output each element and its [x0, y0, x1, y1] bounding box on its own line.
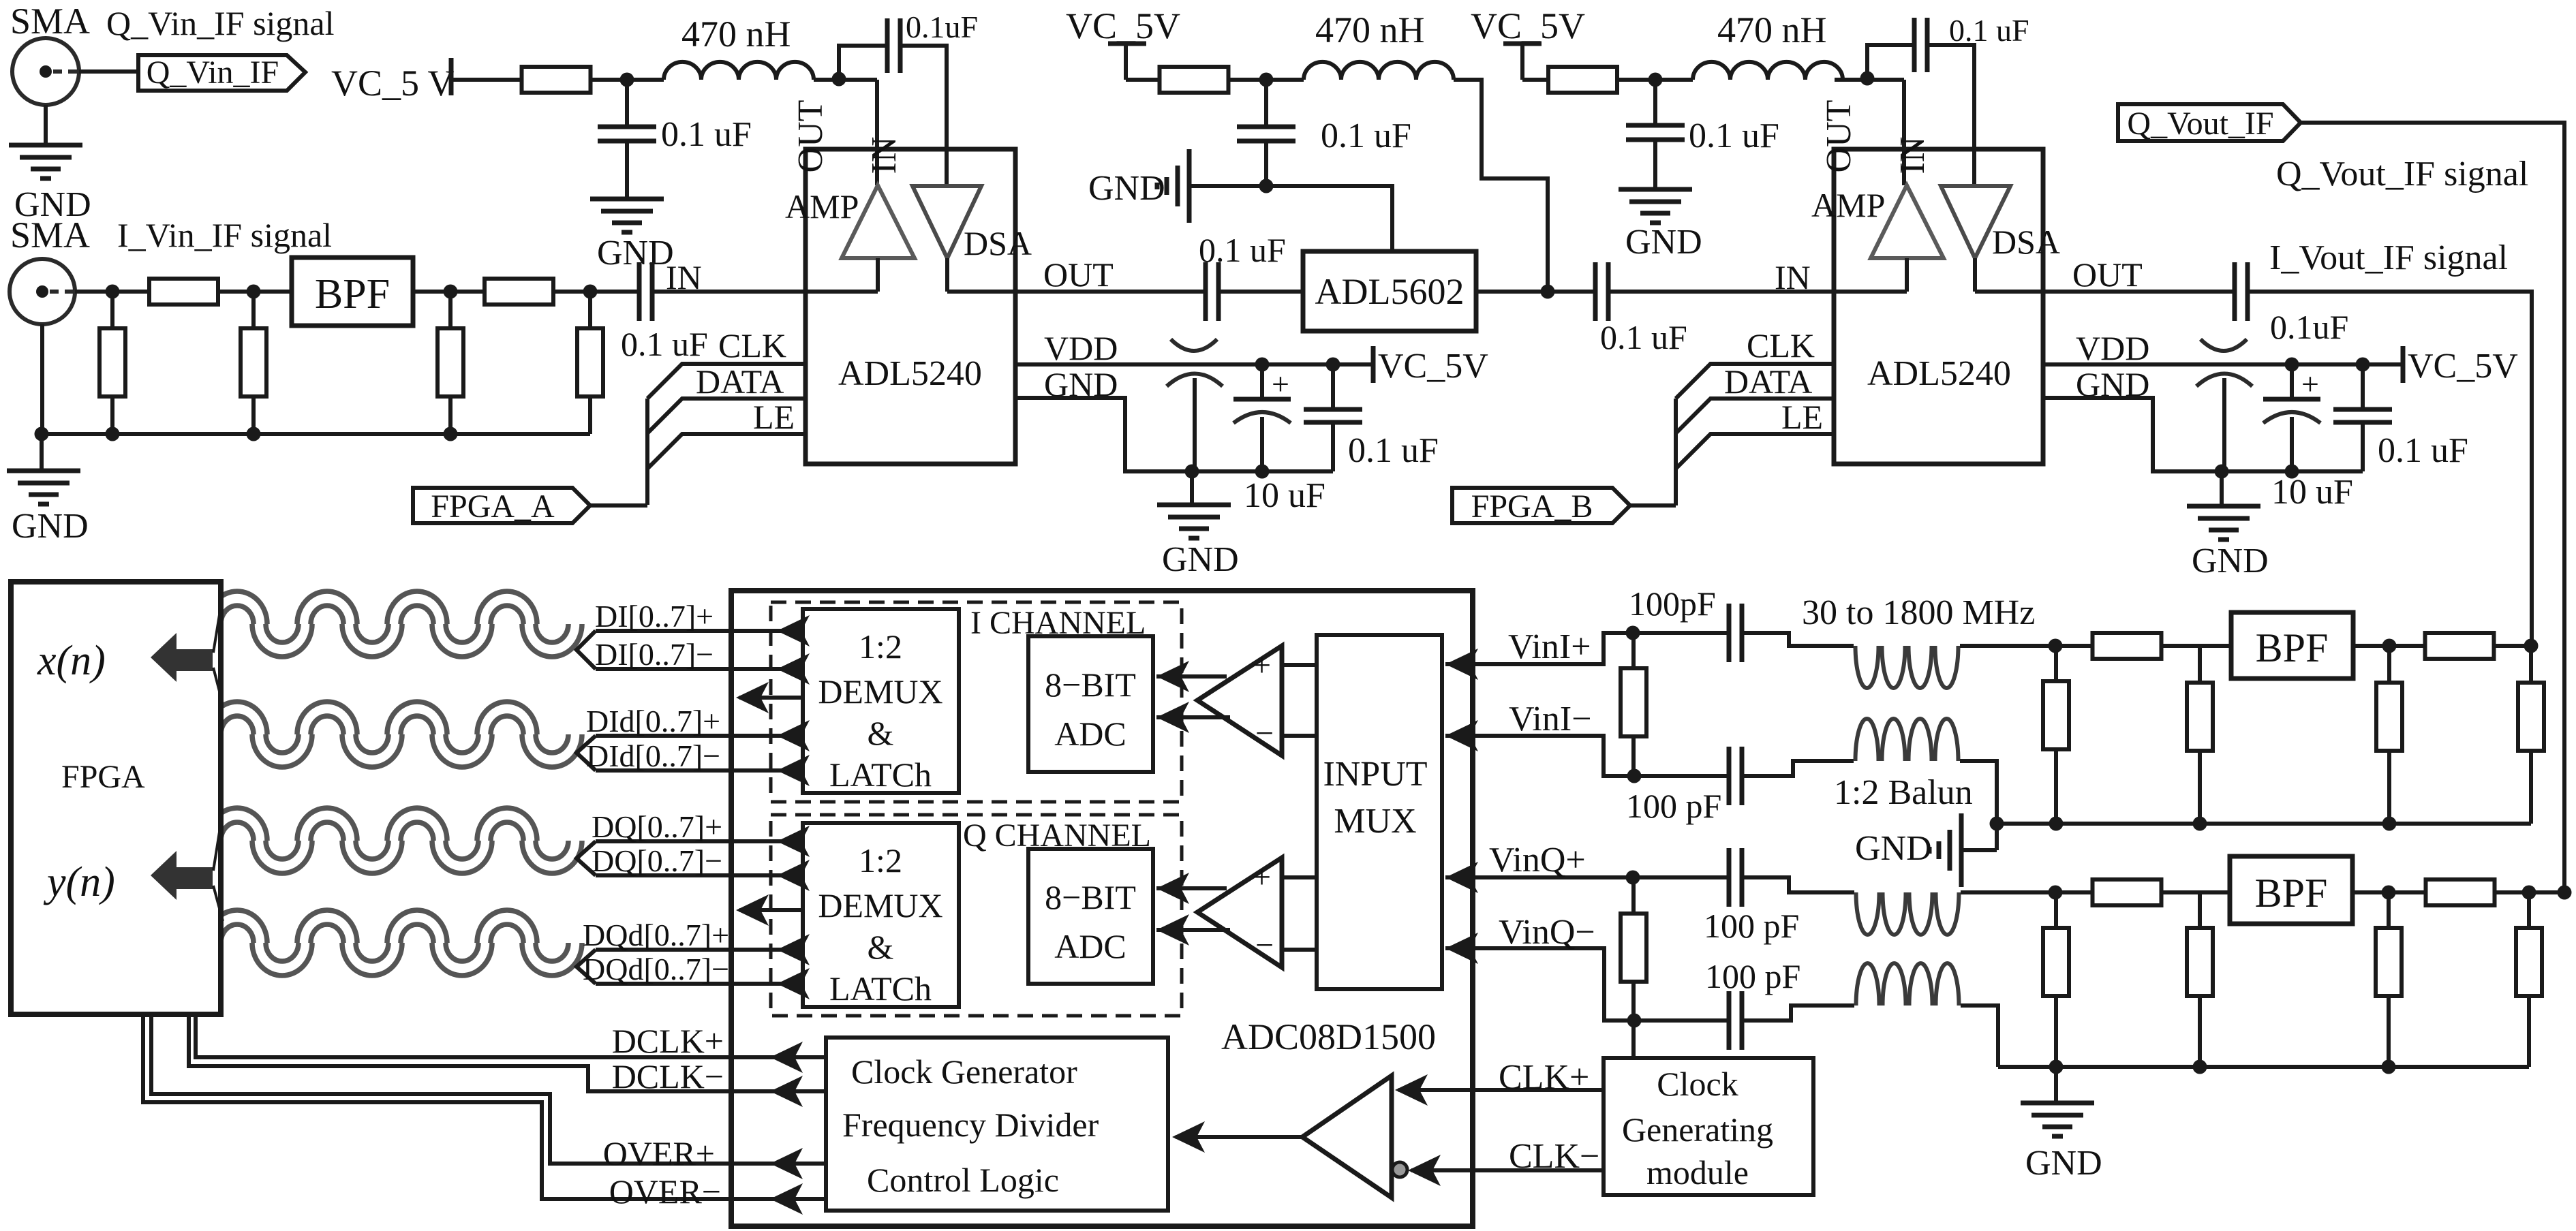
- svg-text:ADC: ADC: [1054, 927, 1126, 965]
- VC_5V tick (U3 VDD): [2401, 346, 2406, 383]
- wire node A2 up to cap C2: [839, 46, 887, 79]
- svg-text:DSA: DSA: [1992, 223, 2060, 261]
- arrow x(n): [151, 633, 213, 682]
- demux U6 (1:2 DEMUX & LATCh Q): [803, 823, 959, 1007]
- wire OVER+: [151, 1014, 826, 1164]
- node G4: [2382, 639, 2397, 653]
- node H4: [2382, 1060, 2396, 1074]
- svg-text:I_Vout_IF signal: I_Vout_IF signal: [2269, 238, 2508, 277]
- svg-text:CLK−: CLK−: [1509, 1137, 1599, 1176]
- net flag FPGA_B: [1452, 488, 1630, 523]
- svg-text:8−BIT: 8−BIT: [1045, 878, 1136, 916]
- VC_5V supply tick A: [449, 58, 454, 95]
- VC_5V tick (U1 VDD): [1371, 346, 1376, 383]
- svg-text:&: &: [868, 714, 894, 752]
- node H5: [2522, 886, 2536, 900]
- wire AMP out U1: [876, 258, 880, 292]
- node G2: [2049, 817, 2064, 831]
- wire VC to R_A: [451, 78, 522, 82]
- svg-text:IN: IN: [666, 258, 702, 296]
- svg-text:ADC: ADC: [1054, 715, 1126, 753]
- svg-text:10 uF: 10 uF: [2271, 473, 2353, 512]
- wire R1 to BPF0: [218, 290, 292, 294]
- svg-text:FPGA_B: FPGA_B: [1471, 488, 1593, 525]
- wire node C2 up to cap C8: [1867, 45, 1914, 78]
- wire A1 - to MUX: [1282, 734, 1317, 738]
- node G1: [2049, 639, 2063, 653]
- wire sideways ground to ADL5602 top: [1189, 186, 1392, 251]
- wire BPF1 to R11: [2353, 644, 2425, 648]
- svg-text:GND: GND: [1162, 540, 1239, 579]
- shunt resistor R8: [2054, 646, 2058, 681]
- svg-text:MUX: MUX: [1334, 802, 1416, 841]
- resistor R9 (series I): [2093, 633, 2162, 659]
- shunt resistor R17: [2198, 892, 2202, 928]
- svg-text:AMP: AMP: [785, 187, 859, 225]
- net DId wires: [577, 736, 596, 770]
- wire R_A to node A1: [590, 78, 664, 82]
- svg-text:DATA: DATA: [1724, 362, 1812, 401]
- svg-text:DEMUX: DEMUX: [818, 886, 942, 924]
- fan wire x(n) bottom: [213, 668, 223, 704]
- node B5: [1259, 73, 1274, 87]
- CLK pin wire U1: [647, 364, 806, 399]
- inductor L2 470 nH: [1304, 62, 1454, 80]
- node I4: [583, 285, 598, 299]
- wire C8 to DSA input U3: [1927, 45, 1974, 186]
- svg-text:1:2: 1:2: [859, 627, 902, 666]
- wire GND pin U1: [1015, 398, 1333, 471]
- shunt resistor R6: [588, 292, 592, 328]
- balun T1 bottom winding: [1856, 719, 1879, 761]
- svg-text:0.1 uF: 0.1 uF: [2378, 431, 2468, 470]
- wire VinI-: [1445, 736, 1729, 776]
- capacitor C10 (curved, VDD U1): [1171, 339, 1217, 351]
- node I3: [444, 285, 458, 299]
- ground stem (SMA Q): [44, 105, 48, 145]
- node G6: [2524, 639, 2539, 653]
- balun T2 bottom winding: [1856, 963, 1880, 1006]
- svg-text:VDD: VDD: [1044, 329, 1118, 367]
- svg-text:10 uF: 10 uF: [1244, 476, 1325, 515]
- wire VDD U3: [2043, 362, 2403, 367]
- node A1: [620, 73, 634, 87]
- svg-text:Clock: Clock: [1657, 1065, 1738, 1103]
- capacitor C15 0.1 uF: [2361, 364, 2365, 409]
- node B2: [106, 427, 120, 441]
- svg-text:470 nH: 470 nH: [1717, 10, 1827, 50]
- node H1: [2049, 886, 2063, 900]
- node H2: [2049, 1060, 2064, 1074]
- wire A1 + to MUX: [1282, 663, 1317, 667]
- svg-text:+: +: [2301, 367, 2319, 401]
- capacitor C4 0.1 uF (decouple B): [1264, 80, 1268, 127]
- svg-text:100 pF: 100 pF: [1705, 957, 1800, 995]
- wire BPF2 to R18: [2352, 890, 2426, 894]
- wire A3 out to clock box: [1176, 1135, 1302, 1139]
- svg-text:8−BIT: 8−BIT: [1045, 666, 1136, 704]
- node F1: [1990, 817, 2004, 831]
- control trunk wire U1: [645, 399, 649, 505]
- resistor R_C (series supply): [1548, 67, 1617, 93]
- svg-text:SMA: SMA: [10, 1, 90, 42]
- net DQd wires: [577, 950, 596, 984]
- svg-text:IN: IN: [865, 137, 904, 174]
- resistor R18 (series Q 2): [2426, 879, 2495, 905]
- wire IN stub U3: [1834, 290, 1907, 294]
- wire IN stub U1: [806, 290, 878, 294]
- wire DCLK+: [196, 1014, 826, 1057]
- resistor R1 (series): [149, 279, 218, 305]
- wire H1 to R16: [2055, 890, 2093, 894]
- shunt resistor R20: [2527, 892, 2531, 928]
- op-amp block U3 ADL5240: [1834, 149, 2043, 464]
- wire L1 to node A2: [814, 78, 877, 82]
- wire G1 to R9: [2055, 644, 2093, 648]
- wire VinI+: [1445, 633, 1729, 664]
- node C2: [1860, 72, 1875, 86]
- node H3: [2382, 886, 2396, 900]
- svg-text:0.1uF: 0.1uF: [906, 10, 978, 44]
- svg-text:IN: IN: [1893, 137, 1932, 174]
- svg-text:1:2 Balun: 1:2 Balun: [1834, 773, 1973, 812]
- wire C19 to balun2 bottom: [1742, 1006, 1854, 1020]
- wire GND pin U3: [2043, 398, 2363, 471]
- svg-text:Clock Generator: Clock Generator: [851, 1053, 1077, 1091]
- wire C2 to DSA input: [900, 46, 947, 186]
- wire T2 top out: [1961, 890, 2055, 894]
- wire VinQ-: [1445, 948, 1729, 1020]
- wire VDD U1: [1015, 362, 1373, 367]
- svg-text:VDD: VDD: [2076, 329, 2149, 367]
- node D6: [2356, 358, 2370, 372]
- wire DSA out U3: [1973, 258, 1977, 292]
- shunt resistor R3: [110, 292, 114, 328]
- svg-text:VinI+: VinI+: [1508, 627, 1591, 666]
- attenuator triangle DSA U1: [913, 186, 981, 258]
- svg-text:DQ[0..7]+: DQ[0..7]+: [592, 809, 722, 844]
- node B1: [35, 427, 49, 441]
- svg-text:IN: IN: [1775, 258, 1811, 296]
- node D4: [1255, 465, 1270, 479]
- demux U4 (1:2 DEMUX & LATCh): [803, 609, 959, 793]
- node H6: [2558, 886, 2572, 900]
- ground bus (Q network): [1998, 1065, 2529, 1069]
- comparator A2 (Q): [1197, 858, 1282, 967]
- svg-text:100 pF: 100 pF: [1626, 787, 1721, 825]
- svg-text:CLK+: CLK+: [1499, 1058, 1589, 1097]
- ground sideways (C4): [1187, 149, 1192, 223]
- svg-text:I_Vin_IF signal: I_Vin_IF signal: [117, 216, 332, 254]
- svg-text:ADC08D1500: ADC08D1500: [1221, 1016, 1436, 1057]
- wire DSA out U1: [945, 258, 949, 292]
- svg-text:+: +: [1272, 367, 1289, 401]
- CLK pin wire U3: [1676, 364, 1834, 399]
- wire OVER-: [143, 1014, 826, 1199]
- svg-text:DI[0..7]−: DI[0..7]−: [595, 637, 714, 672]
- ground (C7): [1619, 187, 1692, 192]
- resistor R11 (series I 2): [2425, 633, 2494, 659]
- svg-text:GND: GND: [1855, 829, 1932, 868]
- svg-text:SMA: SMA: [10, 215, 90, 255]
- capacitor C2 0.1uF (AMP to DSA): [885, 18, 890, 73]
- svg-text:0.1 uF: 0.1 uF: [1199, 231, 1286, 269]
- svg-text:LATCh: LATCh: [829, 755, 932, 794]
- svg-text:VC_5V: VC_5V: [1066, 5, 1180, 46]
- ground (C1): [590, 197, 664, 202]
- svg-text:Control Logic: Control Logic: [867, 1161, 1059, 1199]
- twisted pair DI: [207, 591, 582, 657]
- FPGA block: [11, 582, 221, 1014]
- capacitor C11 10 uF (polarized): [1260, 364, 1264, 399]
- node B4: [444, 427, 458, 441]
- clock buffer triangle A3: [1302, 1076, 1392, 1198]
- fan wire y(n) top: [213, 811, 223, 871]
- shunt resistor R15: [2054, 892, 2058, 928]
- capacitor C7 0.1 uF (decouple C): [1653, 80, 1657, 125]
- balun T1 top winding: [1856, 646, 1879, 688]
- ground sideways (balun): [1959, 813, 1964, 887]
- wire U4 output arrow: [739, 696, 803, 700]
- node B3: [247, 427, 261, 441]
- wire BPF0 to R2: [413, 290, 485, 294]
- resistor R16 (series Q): [2093, 879, 2162, 905]
- wire A2 + to MUX: [1282, 875, 1317, 879]
- svg-text:Q_Vin_IF signal: Q_Vin_IF signal: [106, 4, 335, 42]
- node G3: [2193, 817, 2207, 831]
- svg-text:OUT: OUT: [2072, 255, 2143, 294]
- svg-text:BPF: BPF: [2255, 871, 2328, 916]
- svg-text:0.1uF: 0.1uF: [2270, 308, 2348, 346]
- wire OUT stub U3: [1975, 290, 2043, 294]
- wire C5 to U2: [1218, 290, 1303, 294]
- wire Q_Vout_IF to Q network: [2301, 123, 2564, 892]
- svg-text:VC_5V: VC_5V: [1378, 347, 1488, 386]
- SMA connector J1 (Q input): [12, 38, 79, 105]
- wire CLK+: [1398, 1088, 1604, 1092]
- balun T2 top winding: [1856, 892, 1880, 935]
- svg-text:GND: GND: [1625, 223, 1702, 262]
- svg-text:0.1 uF: 0.1 uF: [661, 115, 752, 154]
- svg-text:CLK: CLK: [718, 326, 786, 364]
- clock box (Clock Generator / Frequency Divider / Control Logic): [826, 1038, 1168, 1211]
- svg-text:30 to 1800 MHz: 30 to 1800 MHz: [1802, 593, 2035, 632]
- svg-text:Frequency Divider: Frequency Divider: [842, 1106, 1099, 1144]
- wire comparator to U7 (-): [1156, 928, 1230, 932]
- filter BPF1: [2231, 612, 2353, 679]
- wire R2 to C3: [553, 290, 639, 294]
- wire C3 to U1 IN: [652, 290, 806, 294]
- node E3: [1626, 871, 1640, 885]
- wire C17 to balun bottom: [1742, 761, 1854, 776]
- DATA pin wire U3: [1676, 399, 1834, 433]
- wire comparator to U5 (-): [1156, 715, 1230, 719]
- svg-text:DQd[0..7]−: DQd[0..7]−: [583, 952, 729, 986]
- svg-text:470 nH: 470 nH: [681, 14, 791, 54]
- wire SMA to Q_Vin_IF flag: [79, 69, 138, 74]
- capacitor C12 0.1 uF: [1331, 364, 1335, 409]
- svg-text:+: +: [1253, 859, 1271, 895]
- node D5: [2285, 358, 2299, 372]
- svg-text:OVER+: OVER+: [603, 1134, 715, 1172]
- svg-text:OUT: OUT: [1820, 100, 1858, 173]
- wire C9 to I network: [2248, 292, 2532, 646]
- svg-text:VinQ−: VinQ−: [1499, 913, 1595, 952]
- shunt resistor R12: [2387, 646, 2391, 683]
- inductor L3 470 nH: [1693, 62, 1843, 80]
- svg-text:DQ[0..7]−: DQ[0..7]−: [592, 843, 722, 878]
- svg-text:GND: GND: [2025, 1144, 2102, 1183]
- net flag Q_Vout_IF: [2118, 104, 2301, 141]
- capacitor C9 0.1uF (output coupling): [2233, 262, 2237, 321]
- node D2: [1326, 358, 1340, 372]
- capacitor C6 0.1 uF (interstage 2): [1593, 262, 1598, 321]
- svg-text:ADL5240: ADL5240: [1867, 354, 2011, 393]
- ground (U3 bus): [2220, 471, 2224, 506]
- capacitor C13 (curved, VDD U3): [2201, 339, 2247, 351]
- svg-text:0.1 uF: 0.1 uF: [621, 325, 708, 363]
- svg-text:GND: GND: [597, 234, 674, 272]
- capacitor C8 0.1 uF (AMP to DSA U3): [1912, 18, 1917, 72]
- svg-text:DId[0..7]−: DId[0..7]−: [586, 738, 720, 773]
- amplifier triangle AMP U3: [1871, 185, 1944, 258]
- svg-text:module: module: [1646, 1153, 1749, 1191]
- svg-text:DCLK+: DCLK+: [612, 1022, 724, 1060]
- wire R9 to BPF1: [2161, 644, 2231, 648]
- amplifier triangle AMP U1: [842, 185, 915, 258]
- SMA connector J2 (I input): [10, 259, 75, 324]
- shunt resistor R13: [2529, 646, 2533, 683]
- node H7: [2193, 1060, 2207, 1074]
- node D1: [1255, 358, 1270, 372]
- wire clock module to VinQ- node: [1631, 1020, 1636, 1058]
- capacitor C19 100 pF (VinQ-): [1727, 991, 1732, 1050]
- svg-text:OUT: OUT: [1043, 255, 1114, 294]
- wire R_C to node C1: [1617, 78, 1693, 82]
- wire VC_C to R_C: [1522, 78, 1548, 82]
- capacitor C18 100 pF (VinQ+): [1727, 848, 1732, 907]
- LE pin wire U1: [647, 434, 806, 469]
- resistor R_B (series supply): [1160, 67, 1229, 93]
- wire C6 to U3 IN: [1608, 290, 1834, 294]
- svg-text:VC_5V: VC_5V: [2408, 347, 2518, 386]
- twisted pair DId: [207, 702, 582, 767]
- svg-text:Generating: Generating: [1622, 1110, 1773, 1149]
- inductor L1 470 nH: [664, 62, 814, 80]
- capacitor C16 100pF (VinI+): [1727, 604, 1732, 662]
- node A2: [832, 72, 846, 87]
- fan wire x(n) top: [213, 594, 223, 653]
- svg-text:DId[0..7]+: DId[0..7]+: [586, 704, 720, 738]
- svg-text:LE: LE: [753, 398, 795, 436]
- svg-text:AMP: AMP: [1811, 186, 1885, 224]
- wire FPGA_A to trunk: [590, 503, 647, 508]
- mux U8 INPUT MUX: [1317, 635, 1442, 989]
- wire U6 output arrow: [739, 908, 803, 912]
- ground bus (I network): [1997, 822, 2531, 826]
- svg-text:y(n): y(n): [43, 859, 115, 905]
- svg-text:BPF: BPF: [2256, 625, 2329, 670]
- wire balun ground stub: [1961, 848, 1997, 852]
- wire U3 OUT to C9: [2043, 290, 2235, 294]
- svg-text:−: −: [1255, 927, 1274, 963]
- fan wire y(n) bottom: [213, 886, 223, 921]
- Q CHANNEL dashed box: [771, 815, 1182, 1016]
- svg-text:LATCh: LATCh: [829, 969, 932, 1008]
- svg-text:DATA: DATA: [696, 362, 784, 401]
- amplifier U2 ADL5602: [1303, 251, 1476, 331]
- VC_5V supply tick C: [1503, 42, 1542, 46]
- svg-text:GND: GND: [2192, 542, 2269, 580]
- node D7: [2215, 465, 2229, 479]
- svg-text:CLK: CLK: [1747, 326, 1815, 364]
- shunt resistor R4: [251, 292, 256, 328]
- node B6: [1259, 179, 1274, 193]
- node I2: [247, 285, 261, 299]
- net DQ wires: [577, 841, 596, 875]
- svg-text:0.1 uF: 0.1 uF: [1600, 318, 1687, 356]
- VC_5V supply tick B: [1108, 42, 1146, 46]
- wire L3 to node C2: [1835, 78, 1904, 82]
- svg-text:DEMUX: DEMUX: [818, 672, 942, 711]
- svg-text:DSA: DSA: [964, 224, 1032, 262]
- wire AMP out U3: [1905, 258, 1909, 292]
- filter BPF2: [2230, 856, 2352, 924]
- wire R18 to Q_Vout node: [2494, 890, 2564, 894]
- svg-text:BPF: BPF: [315, 271, 390, 317]
- svg-text:DI[0..7]+: DI[0..7]+: [595, 599, 714, 634]
- svg-text:LE: LE: [1781, 398, 1823, 436]
- wire VC_B to R_B: [1126, 78, 1160, 82]
- termination resistor R7 (VinI): [1631, 633, 1636, 669]
- capacitor C5 0.1 uF (interstage): [1203, 262, 1208, 321]
- svg-text:Q_Vout_IF: Q_Vout_IF: [2127, 106, 2273, 142]
- svg-text:ADL5602: ADL5602: [1315, 271, 1465, 312]
- wire R16 to BPF2: [2161, 890, 2230, 894]
- DATA pin wire U1: [647, 399, 806, 433]
- svg-text:−: −: [1255, 715, 1274, 751]
- shunt resistor R19: [2387, 892, 2391, 928]
- wire U1 OUT to C5: [1015, 290, 1206, 294]
- wire VinQ+: [1445, 875, 1729, 879]
- node E2: [1627, 769, 1642, 783]
- wire T1 bottom to ground bus: [1960, 761, 1997, 850]
- node B7: [1541, 285, 1555, 299]
- op-amp block U1 ADL5240: [806, 149, 1015, 464]
- wire OUT stub U1: [947, 290, 1015, 294]
- wire node A2 down to AMP input: [875, 80, 879, 185]
- svg-text:100pF: 100pF: [1629, 585, 1716, 623]
- LE pin wire U3: [1676, 434, 1834, 469]
- net DI wires: [577, 631, 596, 669]
- svg-text:+: +: [1253, 647, 1271, 683]
- capacitor C14 10 uF (polarized): [2290, 364, 2294, 399]
- node D8: [2285, 465, 2299, 479]
- svg-text:OUT: OUT: [791, 100, 830, 173]
- svg-text:&: &: [868, 928, 894, 966]
- capacitor C1 0.1uF (supply decouple A): [625, 80, 629, 127]
- svg-text:VC_5 V: VC_5 V: [331, 63, 455, 104]
- wire R_B to node B5: [1228, 78, 1304, 82]
- svg-text:VinI−: VinI−: [1509, 700, 1592, 738]
- shunt resistor R10: [2198, 646, 2202, 683]
- wire L2 to ADL5602 output node: [1454, 80, 1548, 292]
- svg-text:DCLK−: DCLK−: [612, 1057, 724, 1095]
- filter BPF0: [292, 258, 413, 326]
- twisted pair DQd: [207, 910, 582, 976]
- wire A2 - to MUX: [1282, 948, 1317, 952]
- comparator A1 (I): [1197, 646, 1282, 755]
